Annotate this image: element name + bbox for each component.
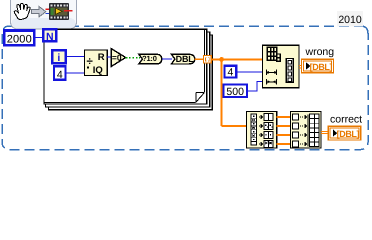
wire 500 to reshape dim2 [247, 81, 263, 90]
wire 4 to QR [66, 72, 85, 74]
wire junction [219, 57, 224, 62]
boolean to 0,1 function [139, 54, 162, 64]
svg-text:4: 4 [57, 69, 63, 81]
svg-text:R: R [98, 52, 105, 63]
loop count terminal N [43, 29, 56, 43]
for loop frame main [44, 29, 207, 104]
toolbar palette [11, 0, 77, 29]
dimension glyph 2 [267, 79, 277, 85]
output array glyph [286, 59, 293, 83]
wire QR to equals-zero [107, 56, 112, 58]
wire 4 to reshape dim1 [237, 71, 263, 73]
wire tunnel to reshape [212, 58, 263, 60]
svg-text:500: 500 [226, 86, 244, 98]
svg-text:4: 4 [227, 67, 233, 79]
interleave arrays node [291, 111, 321, 148]
dimension glyph 1 [267, 70, 277, 76]
wire trunk to decimate [222, 125, 247, 127]
svg-text:[DBL]: [DBL] [310, 62, 333, 72]
boolean wire equals-zero to bool-to-01 [126, 57, 140, 59]
for loop folded corner [195, 92, 205, 103]
for loop frame sheet 2 [46, 32, 210, 107]
svg-text:?1:0: ?1:0 [142, 54, 157, 63]
svg-text:wrong: wrong [305, 46, 335, 58]
indicator wrong DBL array [301, 59, 333, 73]
to double DBL function [171, 54, 194, 64]
wire trunk down [221, 59, 223, 126]
snippet dashed border [2, 26, 368, 150]
equals zero function [111, 49, 125, 67]
wire 2000 to N [35, 37, 44, 39]
constant 500 [224, 85, 247, 98]
arrow tool icon [32, 7, 46, 17]
wires decimate to interleave [277, 117, 291, 144]
wire bool-to-01 to DBL [162, 58, 172, 60]
for loop inner border lines [203, 30, 205, 93]
svg-text:DBL: DBL [176, 54, 195, 64]
svg-text:=0: =0 [112, 53, 122, 63]
svg-text:[DBL]: [DBL] [337, 129, 360, 139]
reshape array node [263, 45, 300, 88]
svg-text:IQ: IQ [93, 65, 103, 76]
svg-text:i: i [57, 52, 60, 64]
wire reshape to wrong indicator (2D) [299, 66, 303, 68]
constant 4 right [225, 66, 237, 79]
wire DBL to tunnel [195, 58, 205, 60]
iteration terminal i [52, 50, 66, 64]
wire interleave to correct indicator (2D) [321, 131, 329, 133]
wire i to QR [66, 56, 85, 58]
snippet film icon [46, 3, 73, 20]
numeric constant 2000 [4, 30, 34, 45]
svg-text:2000: 2000 [7, 33, 32, 45]
label 2010 [337, 11, 363, 27]
quotient remainder function [85, 50, 108, 76]
pan hand tool icon [14, 3, 30, 19]
for loop frame sheet 3 [49, 35, 213, 110]
svg-text:2010: 2010 [338, 14, 362, 26]
decimate array node [247, 111, 277, 148]
svg-text:correct: correct [330, 114, 362, 126]
indicator correct DBL array [328, 126, 361, 140]
svg-text:N: N [46, 31, 54, 43]
loop output tunnel [204, 56, 212, 64]
constant 4 in loop [54, 66, 66, 81]
